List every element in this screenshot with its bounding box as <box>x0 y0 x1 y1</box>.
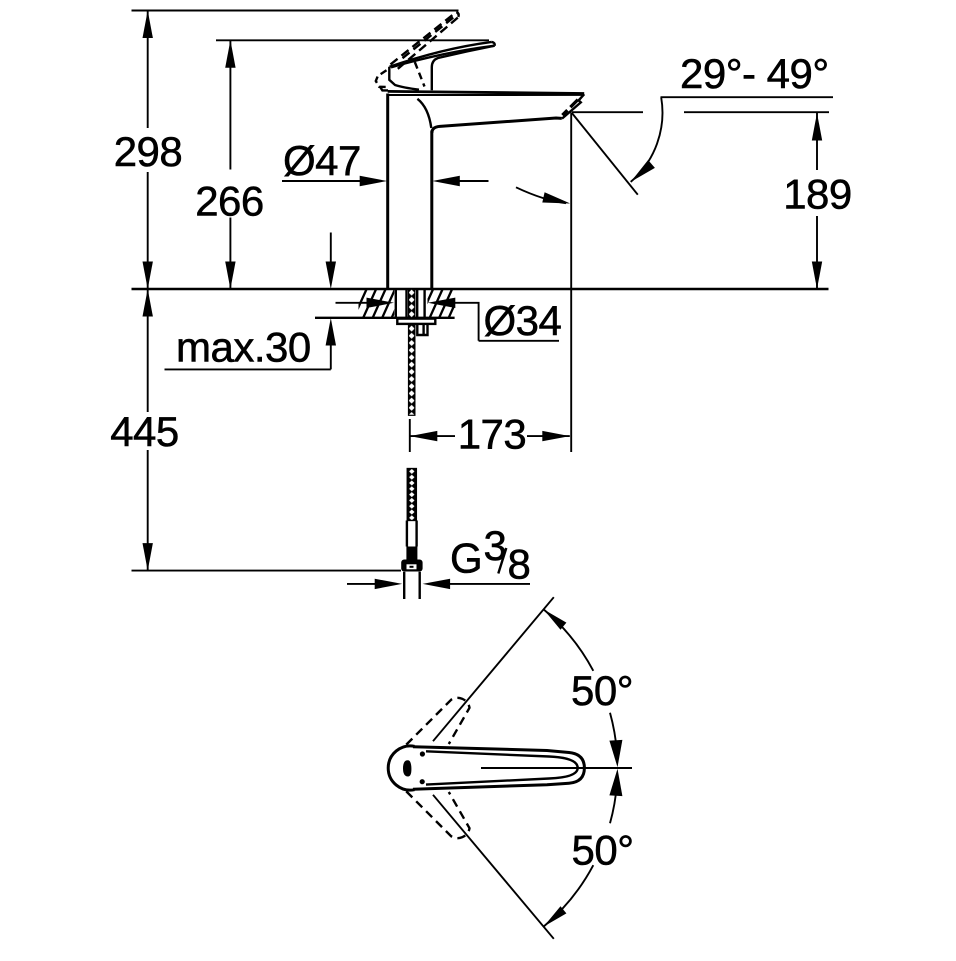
horizontal reference line through outlet <box>572 111 829 113</box>
spout underside <box>432 118 562 133</box>
body fillet curve <box>417 99 431 128</box>
hose plain tube <box>407 521 417 547</box>
svg-text:max.30: max.30 <box>176 324 311 371</box>
lever tip <box>492 42 495 46</box>
svg-text:189: 189 <box>783 171 852 218</box>
arrows meeting at center line <box>609 740 622 767</box>
hose end fitting <box>401 560 422 572</box>
svg-text:50°: 50° <box>572 827 634 874</box>
hose crimp collar <box>406 547 417 560</box>
washer plate <box>397 319 435 324</box>
arrow max30 down at deck top <box>326 262 336 290</box>
arrow 445 bottom <box>143 543 153 571</box>
deck hatching <box>344 289 471 319</box>
lever ridge line <box>391 46 495 68</box>
dashed handle position -50 (top view) <box>406 791 469 838</box>
dimension 189 vertical line <box>816 113 818 289</box>
extension line handle (266) <box>216 39 489 41</box>
deck section bottom line <box>315 317 455 319</box>
arrow 298 top <box>143 11 153 39</box>
spout tip face <box>562 94 584 118</box>
arrow 298 bottom <box>143 262 153 290</box>
handle head (top view) <box>388 746 414 790</box>
cap slot <box>403 760 411 776</box>
extension line top (298) <box>132 10 459 12</box>
dimension max.30 lines <box>165 233 331 370</box>
spout top lower edge <box>389 94 583 96</box>
handle blade outline (top view) <box>413 747 584 790</box>
handle blade inner contour <box>426 751 578 784</box>
shank tube walls in deck <box>396 289 425 318</box>
arrow at -50 end <box>544 906 567 926</box>
aerator outlet <box>562 100 578 116</box>
mounting nut <box>417 325 427 335</box>
svg-text:8: 8 <box>508 541 531 588</box>
svg-text:29°- 49°: 29°- 49° <box>680 50 829 97</box>
arrow max30 up at deck bottom <box>326 318 336 346</box>
dimension 445 vertical line <box>147 289 149 571</box>
leader G3/8 left <box>347 583 377 585</box>
lever knuckle <box>389 67 419 90</box>
arrow at +50 end <box>544 609 567 629</box>
50 deg line lower <box>433 795 554 939</box>
body top-left lip <box>380 87 388 90</box>
spout top edge <box>388 91 585 93</box>
hidden cartridge line (dashed) <box>415 62 425 87</box>
arrow on angle arc <box>631 160 655 182</box>
svg-text:Ø47: Ø47 <box>283 137 361 184</box>
angle arc 50deg segments <box>544 609 594 670</box>
clamp arrows at deck hole <box>336 302 369 304</box>
dashed handle position +50 (top view) <box>406 698 469 745</box>
raised lever position (dashed) <box>391 12 458 69</box>
dimension 266 vertical line <box>229 40 231 289</box>
svg-text:445: 445 <box>110 408 179 455</box>
lever underside and neck <box>432 46 495 91</box>
center axis line <box>481 767 632 769</box>
extension line 173 left <box>409 419 411 452</box>
svg-text:Ø34: Ø34 <box>484 297 562 344</box>
G3/8 nipple <box>404 572 420 599</box>
extension line spout outlet vertical <box>570 113 572 453</box>
arrow 445 top <box>143 289 153 317</box>
svg-text:G: G <box>450 535 482 582</box>
hose braided section <box>407 469 416 521</box>
lever top edge <box>390 42 492 67</box>
dimension 173 line <box>410 435 570 437</box>
leader G3/8 right <box>449 583 531 585</box>
leader Ø47 right with arrow <box>459 180 489 182</box>
dimension 298 vertical line <box>147 11 149 290</box>
spout swivel arc <box>516 187 566 203</box>
svg-text:173: 173 <box>458 411 527 458</box>
svg-text:50°: 50° <box>571 667 633 714</box>
raised lever tip (dashed) <box>456 12 458 17</box>
underline 29-49 <box>661 96 834 98</box>
screw dots <box>420 751 425 756</box>
threaded rod <box>409 289 415 415</box>
reference line hose end (445) <box>132 570 402 572</box>
counter/deck line <box>132 288 829 290</box>
faucet column left edge <box>386 94 389 290</box>
leader Ø47 left with arrow <box>282 180 362 182</box>
faucet column right edge <box>430 131 433 290</box>
hidden knuckle outline (dashed) <box>376 70 387 87</box>
inclined spout direction line (49 deg) <box>572 113 638 195</box>
arrow 266 top <box>225 40 235 68</box>
arrow 266 bottom <box>225 262 235 290</box>
angle arc 29-49 <box>631 97 663 181</box>
svg-text:298: 298 <box>114 128 183 175</box>
svg-text:266: 266 <box>195 178 264 225</box>
50 deg line upper <box>433 597 554 741</box>
